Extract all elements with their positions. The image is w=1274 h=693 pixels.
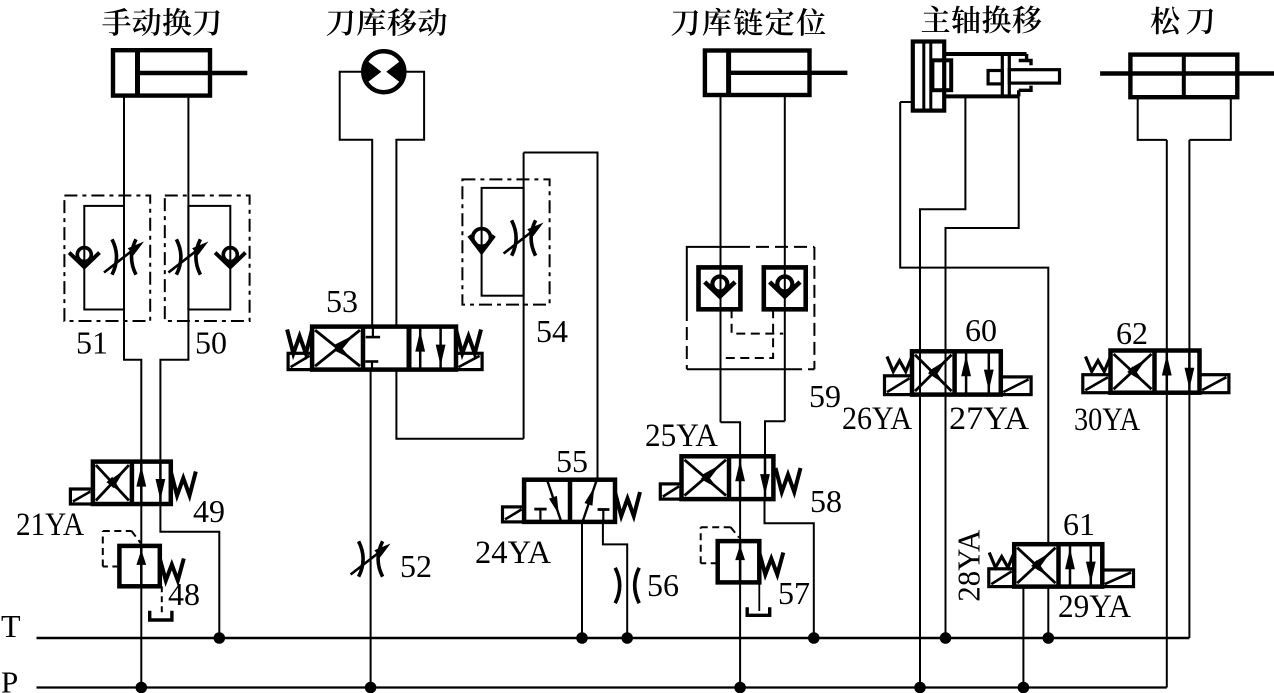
svg-text:T: T [1,608,21,644]
junction dot on P rail x=370 [365,682,377,693]
spring of valve 62 [1086,357,1111,372]
wire cylinder left port through valve 62 to P rail [1166,140,1168,688]
spindle shift actuator rod boss [988,71,1002,84]
valve 55 right position flow path [583,480,597,522]
junction dot on P rail x=1023 [1018,682,1030,693]
valve 60 left position crossed arrows [915,355,952,391]
valve 53 centre position blocked ports [372,327,374,338]
solenoid 30YA box of valve 62 [1083,375,1111,393]
title: tool release (song dao) [1151,7,1180,35]
one-way throttle 51 dashed enclosure [64,196,150,322]
check valve inside 54 [473,229,491,247]
hydraulic lock 59 enclosure (part solid part dashed) [687,247,737,308]
wire actuator mid port through valve 60 to P rail [920,96,965,687]
svg-text:27YA: 27YA [949,401,1029,437]
spring of valve 58 [776,468,801,492]
wire valve 58 right port to T rail [765,499,814,638]
junction dot on P rail x=141 [136,682,148,693]
wire valve 55 blocked port through throttle 56 to T rail [603,522,627,638]
throttle inside 51 [112,239,117,274]
solenoid 26YA box of valve 60 [885,376,913,395]
svg-text:25YA: 25YA [645,418,718,454]
wire valve 49 to T rail (node 49 line) [160,504,219,638]
pilot check valve square right of 59 [764,267,806,309]
left spring of valve 53 [287,330,312,354]
motor right wedge [386,59,403,85]
junction dot on P rail x=920 [914,682,926,693]
valve 62 right position flow arrows [1166,351,1169,393]
wire cylinder left port to valve 49 [124,96,141,462]
throttle 56 [615,568,620,603]
junction dot on T rail x=219 [214,632,226,644]
junction dot on T rail x=582 [576,632,588,644]
left solenoid box of valve 53 [288,353,312,369]
one-way throttle 54 dashed enclosure [462,179,549,304]
valve 61 body [1014,544,1102,586]
junction dot on T rail x=627 [621,632,633,644]
wire cylinder right port through hydraulic lock 59 [784,95,786,421]
valve 53 right position flow arrows [419,327,422,370]
svg-text:P: P [1,665,18,693]
spring of valve 55 [615,492,640,516]
one-way throttle 51 inner loop [84,206,124,310]
svg-text:49: 49 [193,493,225,529]
wire valve 61 to T rail [1047,587,1049,638]
spindle shift actuator piston [1001,54,1004,96]
spindle shift actuator boss [932,60,951,90]
valve 55 body [524,480,615,522]
spring of valve 49 [171,472,196,496]
title: tool magazine move (dao ku yi dong) [327,10,354,36]
valve 61 right position flow arrows [1069,544,1072,586]
svg-text:29YA: 29YA [1058,589,1131,625]
svg-text:58: 58 [810,483,842,519]
wire valve 53 left port to P rail [370,370,372,688]
sequence valve 48 body [119,546,159,586]
net T rail [37,637,1190,640]
wire actuator right port through valve 60 to T rail [946,96,1019,638]
valve 57 pilot dashed line [701,562,718,564]
svg-text:26YA: 26YA [842,401,912,437]
right solenoid box of valve 53 [456,353,482,369]
wire motor right port [396,72,424,327]
check valve inside 50 [223,248,237,262]
svg-text:28YA: 28YA [951,530,987,602]
title: magazine chain positioning (dao ku lian ding wei) [672,10,699,36]
valve 48 flow arrow [140,546,143,586]
one-way throttle 54 inner loop [482,188,524,296]
wire cylinder left port through hydraulic lock 59 [720,95,722,422]
valve 62 left position crossed arrows [1114,354,1152,389]
one-way throttle 50 dashed enclosure [165,196,250,322]
valve 58 body [682,456,774,499]
right spring of valve 53 [456,330,481,354]
spindle shift actuator body [944,52,1026,56]
valve 53 body [312,327,456,370]
tank symbol below valve 57 [747,607,770,615]
wire motor left port [340,72,373,327]
svg-text:60: 60 [965,312,997,348]
wire cylinder right port to valve 49 [160,96,188,462]
junction dot on T rail x=814 [808,632,820,644]
wire actuator left port to valve 61 [900,101,913,103]
valve 60 body [912,351,1001,394]
svg-text:21YA: 21YA [16,507,84,543]
solenoid 28YA box of valve 61 [989,569,1014,587]
svg-text:62: 62 [1116,315,1148,351]
wire valve 53 right port to component 54 and valve 55 [396,370,523,439]
svg-text:51: 51 [76,325,108,361]
valve 60 right position flow arrows [965,351,968,394]
svg-text:59: 59 [809,378,841,414]
valve 57 drain line [758,582,760,611]
svg-text:57: 57 [778,575,810,611]
one-way throttle 50 inner loop [188,206,230,310]
valve 61 left position crossed arrows [1017,548,1055,583]
valve 48 pilot dashed line [103,566,120,568]
net P rail [37,686,1167,688]
motor left wedge [365,59,382,85]
throttle inside 54 [512,220,516,255]
svg-text:24YA: 24YA [475,535,551,571]
wire valve 58 left port through valve 57 to P rail [739,499,741,687]
valve 58 right position flow arrows [739,456,742,499]
svg-text:52: 52 [400,548,432,584]
valve 53 left position crossed arrows [315,330,360,366]
title: manual tool change (shou dong huan dao) [102,8,130,36]
spring of valve 61 [989,553,1014,568]
valve 57 flow arrow [739,541,742,582]
svg-text:55: 55 [556,443,588,479]
tank symbol below valve 48 [150,611,172,620]
right solenoid box of valve 62 [1200,375,1229,393]
solenoid 25YA box of valve 58 [660,484,681,499]
cylinder: tool release (through-rod) [1130,55,1237,98]
solenoid 24YA box of valve 55 [503,507,525,522]
svg-text:48: 48 [168,576,200,612]
spring of valve 60 [887,357,912,372]
wire valve 55 to T rail [581,522,583,638]
svg-text:30YA: 30YA [1074,402,1140,438]
solenoid 21YA box of valve 49 [70,489,93,504]
sequence valve 57 body [718,541,760,582]
check valve inside 51 [77,248,91,262]
pilot check valve square left of 59 [699,267,741,309]
hydraulic motor [363,51,404,92]
junction dot on P rail x=740 [734,682,746,693]
throttle inside 50 [176,239,181,274]
spindle shift actuator rod [1009,70,1059,83]
valve 49 left position crossed arrows [96,465,129,500]
wire cylinder right port through valve 62 to T rail [1188,140,1190,638]
cylinder: manual tool change [113,50,210,95]
title: spindle shift (zhu zhou huan yi) [922,6,950,32]
svg-text:54: 54 [536,313,568,349]
valve 62 body [1111,351,1200,393]
throttle 52 [359,541,364,576]
spring of valve 48 [160,559,184,581]
right solenoid 27YA box of valve 60 [1001,377,1031,395]
valve 48 drain dashed line [161,586,163,613]
check valve symbol left of 59 [712,277,727,292]
wire valve 61 to P rail [1022,587,1024,688]
right solenoid 29YA box of valve 61 [1102,570,1133,587]
check valve symbol right of 59 [777,277,792,292]
spindle shift actuator flange [913,42,944,111]
svg-text:61: 61 [1063,506,1095,542]
tool release cylinder mount skirt [1138,97,1167,140]
svg-text:53: 53 [326,283,358,319]
valve 55 left position blocked arrow [547,480,561,522]
crossed pilot dashed line left [732,309,784,333]
wire valve 49 through valve 48 to P rail [140,504,142,688]
valve 49 right position flow arrows [140,462,143,504]
svg-text:50: 50 [195,325,227,361]
spring of valve 57 [759,553,783,575]
junction dot on T rail x=1048 [1043,632,1055,644]
junction dot on T rail x=945 [940,632,952,644]
crossed pilot dashed line right [720,309,773,358]
valve 58 left position crossed arrows [685,460,727,496]
svg-text:56: 56 [647,567,679,603]
cylinder: magazine chain positioning [705,51,810,96]
valve 49 body [93,462,171,504]
